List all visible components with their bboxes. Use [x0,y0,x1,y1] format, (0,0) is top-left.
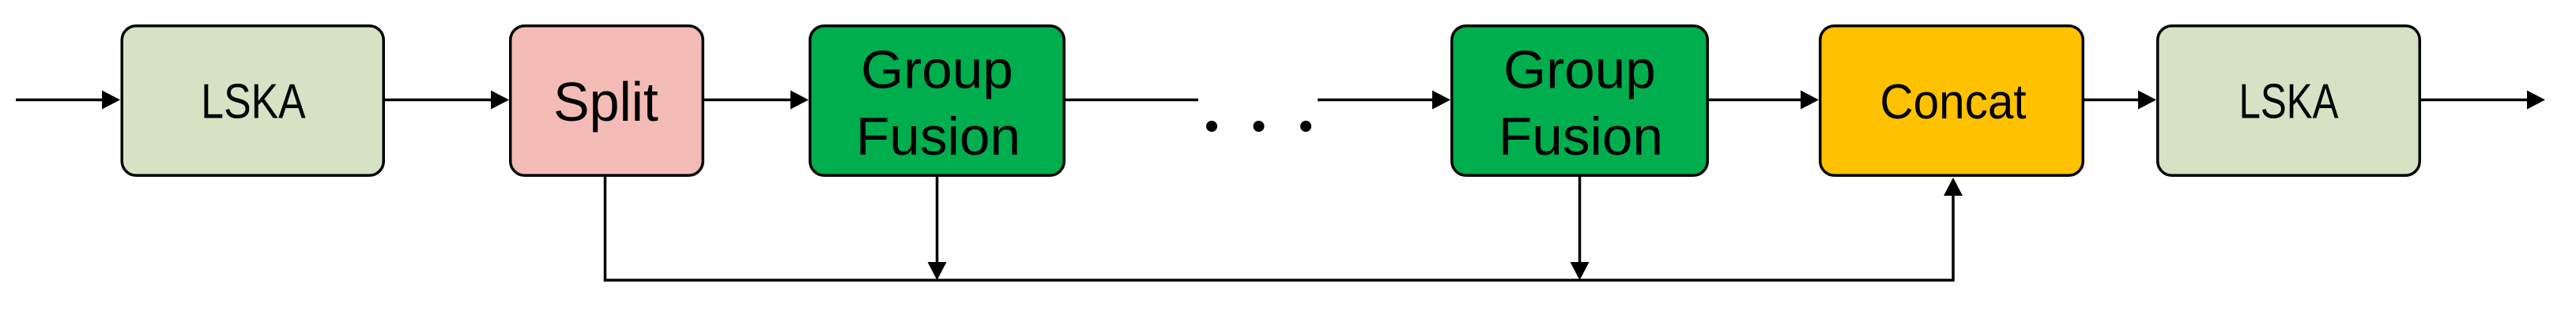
wire Group Fusion 1 down into skip path [928,177,947,280]
block LSKA (first) [122,26,383,176]
wire skip path: Split down, along bottom, up into Concat [605,175,1963,280]
svg-text:Split: Split [553,70,658,133]
wire Group Fusion 2 down into skip path [1571,177,1590,280]
wire Split to Group Fusion 1 [704,91,809,110]
svg-text:LSKA: LSKA [2238,73,2339,129]
wire ellipsis to Group Fusion 2 [1318,91,1450,110]
svg-text:Group: Group [861,39,1013,99]
input arrow [16,91,120,110]
block Split [511,26,703,176]
wire Concat to LSKA 2 [2084,91,2156,110]
block LSKA (second) [2158,26,2420,176]
wire Group Fusion 1 to ellipsis [1065,99,1198,102]
svg-text:Fusion: Fusion [856,107,1020,167]
output arrow [2421,91,2545,110]
svg-text:LSKA: LSKA [201,74,306,129]
svg-text:Fusion: Fusion [1499,107,1663,167]
block Concat [1820,26,2084,176]
svg-text:Group: Group [1503,39,1656,99]
svg-text:Concat: Concat [1880,73,2026,129]
wire LSKA to Split [385,91,509,110]
block Group Fusion (second) [1452,26,1708,176]
ellipsis dots [1206,121,1311,132]
wire Group Fusion 2 to Concat [1709,91,1819,110]
block Group Fusion (first) [810,26,1065,176]
